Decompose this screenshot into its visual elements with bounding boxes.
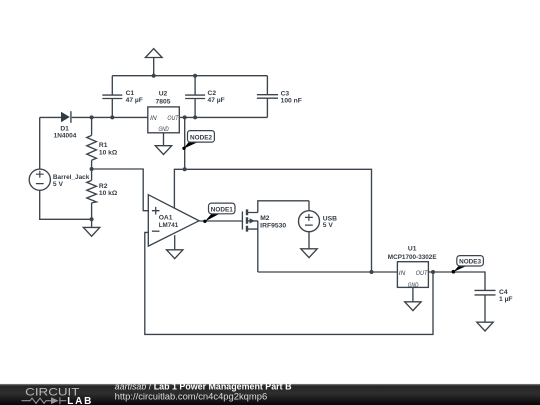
svg-text:IN: IN bbox=[399, 271, 406, 277]
svg-text:GND: GND bbox=[159, 127, 170, 133]
svg-text:C2: C2 bbox=[208, 90, 217, 97]
svg-text:Barrel_Jack: Barrel_Jack bbox=[53, 174, 90, 181]
svg-text:http://circuitlab.com/cn4c4pg2: http://circuitlab.com/cn4c4pg2kqmp6 bbox=[115, 391, 268, 401]
svg-text:1 µF: 1 µF bbox=[499, 296, 513, 303]
svg-text:R1: R1 bbox=[99, 142, 108, 149]
svg-text:10 kΩ: 10 kΩ bbox=[99, 190, 118, 197]
svg-text:OA1: OA1 bbox=[159, 215, 173, 222]
svg-text:47 µF: 47 µF bbox=[126, 97, 143, 104]
svg-text:aartisab / Lab 1 Power Managem: aartisab / Lab 1 Power Management Part B bbox=[115, 382, 292, 392]
svg-text:LAB: LAB bbox=[67, 396, 91, 405]
svg-text:1N4004: 1N4004 bbox=[54, 133, 77, 140]
svg-text:C4: C4 bbox=[499, 289, 508, 296]
svg-text:7805: 7805 bbox=[156, 99, 171, 106]
svg-text:IRF9530: IRF9530 bbox=[260, 222, 286, 229]
svg-text:MCP1700-3302E: MCP1700-3302E bbox=[388, 254, 437, 261]
svg-text:47 µF: 47 µF bbox=[208, 97, 225, 104]
svg-text:100 nF: 100 nF bbox=[281, 98, 302, 105]
svg-text:U1: U1 bbox=[408, 246, 417, 253]
svg-text:NODE3: NODE3 bbox=[459, 259, 481, 266]
svg-text:NODE1: NODE1 bbox=[211, 206, 233, 213]
svg-text:5 V: 5 V bbox=[53, 181, 64, 188]
svg-text:M2: M2 bbox=[260, 215, 270, 222]
svg-text:GND: GND bbox=[408, 283, 419, 289]
svg-text:C1: C1 bbox=[126, 90, 135, 97]
svg-text:NODE2: NODE2 bbox=[190, 135, 212, 142]
svg-text:5 V: 5 V bbox=[323, 222, 334, 229]
svg-text:LM741: LM741 bbox=[159, 222, 179, 229]
svg-text:OUT: OUT bbox=[167, 116, 179, 122]
svg-text:IN: IN bbox=[150, 116, 157, 122]
svg-text:U2: U2 bbox=[159, 91, 168, 98]
svg-text:OUT: OUT bbox=[416, 271, 429, 277]
svg-text:10 kΩ: 10 kΩ bbox=[99, 149, 118, 156]
svg-text:C3: C3 bbox=[281, 90, 290, 97]
